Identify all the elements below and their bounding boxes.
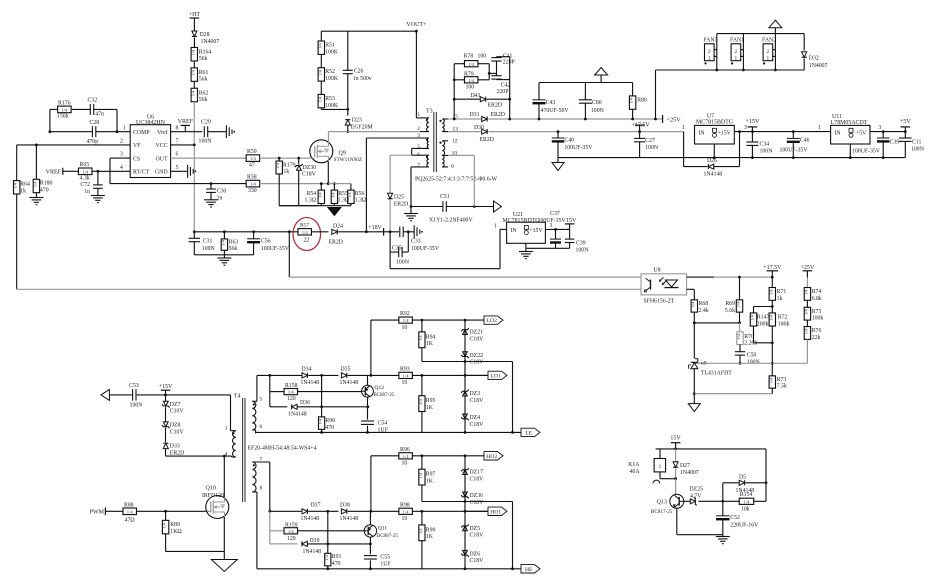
svg-text:100N: 100N	[911, 147, 925, 153]
wire snub right vert	[509, 57, 511, 119]
svg-text:R52: R52	[325, 69, 335, 75]
wire tap rowLE	[422, 361, 513, 363]
svg-text:1/4: 1/4	[468, 62, 475, 67]
svg-text:R76: R76	[812, 328, 822, 334]
svg-text:ER2D: ER2D	[480, 137, 495, 143]
svg-text:470UF-50V: 470UF-50V	[541, 108, 570, 114]
svg-text:1/4: 1/4	[162, 522, 167, 528]
svg-text:C43: C43	[546, 100, 556, 106]
wire R179 down	[278, 174, 280, 206]
svg-text:ER2D: ER2D	[329, 240, 344, 246]
junction +5V	[904, 130, 907, 133]
junction VCC	[193, 144, 196, 147]
svg-text:100N: 100N	[202, 246, 216, 252]
svg-text:1.3Ω: 1.3Ω	[355, 198, 367, 204]
svg-text:D5: D5	[739, 474, 746, 480]
wire base row	[698, 500, 739, 502]
svg-text:C33: C33	[411, 238, 421, 244]
svg-text:5: 5	[260, 396, 263, 402]
wire Q12 top	[367, 375, 369, 385]
wire R158 to base	[298, 391, 362, 393]
svg-text:2: 2	[767, 49, 770, 55]
capacitor C72	[80, 182, 102, 195]
junction R68 row	[693, 322, 696, 325]
junction snub left low	[453, 78, 456, 81]
diode D27	[673, 449, 699, 479]
wire sense gnd row	[279, 205, 351, 207]
svg-text:7: 7	[260, 457, 263, 463]
wire D41 row b	[487, 98, 510, 100]
junction HE row vert	[511, 567, 514, 570]
resistor R78	[464, 54, 487, 67]
svg-text:2.4k: 2.4k	[699, 308, 709, 314]
svg-text:1/4: 1/4	[768, 314, 773, 320]
wire D37-D38	[308, 510, 338, 512]
junction d34 row start	[268, 374, 271, 377]
svg-text:1/4: 1/4	[736, 301, 741, 307]
wire U21 gnd stub	[525, 243, 527, 251]
svg-text:470: 470	[325, 425, 334, 431]
wire R95 down	[421, 412, 423, 433]
resistor R89	[162, 520, 183, 535]
power arrow fans	[769, 20, 782, 33]
wire DZ7 stub	[165, 395, 167, 401]
wire fan riser	[655, 70, 657, 119]
wire rowA	[371, 319, 400, 321]
svg-text:R65: R65	[80, 162, 90, 168]
junction C50 bottom	[739, 362, 742, 365]
svg-text:1/4: 1/4	[317, 42, 322, 48]
svg-text:R159: R159	[285, 523, 298, 529]
wire snub tap	[489, 72, 496, 74]
svg-text:1KΩ: 1KΩ	[170, 529, 182, 535]
port VREF	[178, 119, 194, 132]
svg-text:C18V: C18V	[470, 336, 485, 342]
svg-text:DZ7: DZ7	[170, 402, 181, 408]
wire C32 right	[94, 108, 117, 110]
svg-text:5.6k: 5.6k	[725, 308, 735, 314]
wire R65 to U6	[92, 170, 130, 172]
svg-text:C27: C27	[645, 138, 655, 144]
wire U21 out	[545, 228, 569, 230]
diode D31	[470, 112, 506, 122]
junction tap LE	[464, 360, 467, 363]
svg-text:47: 47	[249, 162, 255, 168]
junction R72 link	[771, 341, 774, 344]
wire LE row b	[465, 431, 521, 433]
port HE	[521, 565, 540, 573]
ground C40 triangle	[552, 163, 564, 171]
transistor Q12 BC807-25	[362, 385, 395, 398]
svg-text:R91: R91	[332, 554, 342, 560]
svg-text:R88: R88	[124, 502, 134, 508]
resistor R65	[78, 162, 92, 181]
resistor R164	[190, 47, 211, 62]
svg-text:R72: R72	[778, 315, 788, 321]
svg-text:1/4: 1/4	[403, 454, 410, 459]
zener DZ22	[461, 352, 484, 366]
capacitor C35	[390, 232, 410, 266]
svg-text:1N4148: 1N4148	[301, 380, 320, 386]
svg-text:1k: 1k	[777, 296, 783, 302]
wire R55 stub	[333, 184, 335, 191]
wire R176 to C32	[72, 108, 90, 110]
svg-text:1/4: 1/4	[750, 314, 755, 320]
capacitor C29	[199, 119, 213, 144]
zener DZ25	[684, 487, 703, 506]
pin 5 wire GND	[171, 170, 188, 172]
transformer T4 sec 5-6	[252, 401, 257, 433]
wire C42 bottom link	[497, 79, 510, 81]
svg-text:1: 1	[494, 223, 497, 229]
svg-text:C50: C50	[747, 353, 757, 359]
wire Q11 top	[369, 511, 371, 524]
junction d37 row start	[268, 510, 271, 513]
wire relay gnd row	[677, 534, 723, 536]
svg-text:DZ6: DZ6	[470, 552, 481, 558]
svg-text:VREF: VREF	[46, 169, 62, 175]
wire C30 gnd	[210, 192, 212, 199]
junction relay top	[674, 448, 677, 451]
wire pin7 down	[410, 167, 412, 207]
capacitor C41	[491, 54, 514, 66]
svg-text:K1A: K1A	[628, 462, 640, 468]
resistor R97	[418, 469, 436, 485]
svg-text:+HT: +HT	[189, 12, 201, 18]
junction DZ7 top	[164, 394, 167, 397]
svg-text:1/4: 1/4	[318, 418, 323, 424]
wire D25 col upper	[389, 155, 391, 193]
wire DZ30 down	[298, 170, 300, 205]
svg-text:1/4: 1/4	[403, 374, 410, 379]
svg-text:1: 1	[682, 125, 685, 131]
wire comp loop left	[49, 109, 51, 131]
junction R99 top	[421, 510, 424, 513]
wire R147 link	[754, 342, 773, 344]
wire COMP row a	[50, 131, 93, 133]
wire rowB right	[412, 374, 487, 376]
resistor R180	[32, 179, 52, 193]
wire R159 link	[270, 530, 284, 532]
svg-text:X1Y1-2.2NF400V: X1Y1-2.2NF400V	[429, 218, 473, 224]
svg-text:1: 1	[767, 56, 770, 62]
svg-text:STW11N90Z: STW11N90Z	[334, 157, 363, 163]
svg-text:+15V: +15V	[718, 130, 732, 136]
wire CS down	[109, 158, 111, 184]
pin 8 wire Vref	[171, 131, 203, 133]
svg-text:1N4148: 1N4148	[340, 516, 359, 522]
svg-text:DZ3: DZ3	[470, 391, 481, 397]
svg-text:100UF-35V: 100UF-35V	[780, 148, 809, 154]
svg-text:RT/CT: RT/CT	[133, 170, 150, 176]
wire R180 to gnd	[35, 193, 37, 198]
svg-text:MC7815BDTG: MC7815BDTG	[696, 119, 734, 125]
junction rowB2 x371	[370, 510, 373, 513]
svg-text:C42: C42	[501, 83, 511, 89]
svg-text:1/4: 1/4	[190, 49, 195, 55]
svg-text:Q9: Q9	[339, 151, 346, 157]
svg-text:1/4: 1/4	[324, 554, 329, 560]
diode D41	[471, 93, 503, 109]
svg-text:180k: 180k	[778, 321, 790, 327]
wire D28 to R164	[193, 38, 195, 48]
resistor R99	[418, 525, 436, 541]
relay K1A	[628, 459, 665, 476]
svg-text:PQ2625-52:7:4:3:3:7:7:52-Φ0.6-: PQ2625-52:7:4:3:3:7:7:52-Φ0.6-W	[415, 177, 498, 183]
svg-text:1/4: 1/4	[403, 509, 410, 514]
svg-text:R64: R64	[20, 182, 30, 188]
svg-text:C18V: C18V	[302, 171, 317, 177]
svg-text:6.8k: 6.8k	[812, 296, 822, 302]
port +17.5V rail	[635, 125, 644, 132]
diode D24	[329, 224, 344, 246]
wire D38 right	[348, 510, 400, 512]
resistor R80	[629, 83, 647, 120]
diode D38	[340, 503, 359, 523]
wire +18V to D25col	[384, 231, 391, 233]
wire rowA2 left vert	[370, 456, 372, 512]
wire C55 down	[369, 560, 371, 568]
junction rowB x371	[370, 374, 373, 377]
svg-text:R98: R98	[400, 502, 410, 508]
svg-text:OUT: OUT	[155, 156, 168, 162]
capacitor C11	[899, 132, 925, 158]
svg-text:330: 330	[248, 188, 257, 194]
port triangle left	[101, 389, 109, 400]
transformer T3 secondary winding 12-10	[439, 141, 448, 156]
wire fan bottom rail	[656, 69, 805, 71]
svg-text:R96: R96	[400, 447, 410, 453]
wire rowA2 right	[412, 455, 465, 457]
svg-text:1/4: 1/4	[190, 90, 195, 96]
svg-text:EGF20M: EGF20M	[351, 125, 373, 131]
wire VOUT down to pin1	[415, 31, 417, 118]
svg-text:100N: 100N	[130, 402, 144, 408]
svg-text:D33: D33	[170, 443, 180, 449]
junction C54 bot	[366, 431, 369, 434]
svg-text:1/4: 1/4	[403, 318, 410, 323]
wire fb row	[694, 362, 772, 364]
wire D34 mid col	[321, 375, 323, 417]
svg-text:4.3k: 4.3k	[80, 176, 90, 182]
wire R99 stub	[421, 511, 423, 525]
resistor R154	[739, 492, 754, 512]
wire R159 to base	[298, 530, 365, 532]
power port +HT	[189, 12, 201, 18]
svg-text:R164: R164	[199, 50, 212, 56]
svg-text:R180: R180	[40, 180, 53, 186]
wire R94 down	[421, 348, 423, 362]
svg-text:1: 1	[735, 56, 738, 62]
wire out to C46	[752, 131, 830, 133]
junction R97 top	[421, 454, 424, 457]
wire C54 down	[367, 426, 369, 433]
svg-text:1/4: 1/4	[803, 328, 808, 334]
svg-text:47n: 47n	[95, 112, 104, 118]
svg-text:ER2D: ER2D	[488, 103, 503, 109]
svg-text:1: 1	[123, 125, 126, 131]
svg-text:FAN2: FAN2	[762, 38, 776, 44]
junction row c31	[193, 230, 196, 233]
wire pin13 to D30	[448, 131, 481, 133]
svg-text:1/4: 1/4	[418, 335, 423, 341]
svg-text:DZ30: DZ30	[303, 165, 317, 171]
wire R75-R76	[806, 320, 808, 327]
svg-text:1/4: 1/4	[61, 108, 68, 113]
svg-text:R70: R70	[744, 334, 754, 340]
wire HE row b	[465, 568, 521, 570]
wire drain bus	[329, 131, 421, 133]
wire pin15 to D31	[448, 118, 481, 120]
wire CS row	[110, 157, 130, 159]
svg-text:1/4: 1/4	[803, 308, 808, 314]
svg-text:3: 3	[879, 125, 882, 131]
svg-text:D32: D32	[809, 56, 819, 62]
svg-text:R51: R51	[325, 43, 335, 49]
resistor R159	[284, 523, 298, 542]
junction comp right	[116, 130, 119, 133]
wire R61 to R62	[193, 81, 195, 88]
wire R158 link	[270, 391, 284, 393]
svg-text:1/4: 1/4	[768, 289, 773, 295]
wire R68 top	[693, 289, 695, 300]
wire R180 stub	[35, 145, 37, 179]
wire rail175 a	[489, 131, 684, 133]
junction R54 top	[320, 182, 323, 185]
svg-text:IN: IN	[511, 228, 518, 234]
ground pin5 sideways	[188, 165, 197, 178]
svg-text:Q10: Q10	[206, 486, 216, 492]
wire fb lower bus	[17, 288, 641, 290]
wire R90 down	[321, 429, 323, 432]
resistor R63	[220, 232, 238, 255]
svg-text:1/4: 1/4	[275, 162, 280, 168]
junction R89 top	[164, 510, 167, 513]
wire D25 col lower	[389, 200, 391, 232]
red highlight ellipse	[293, 218, 321, 251]
wire U21 in	[500, 228, 507, 230]
svg-text:T3: T3	[426, 109, 433, 115]
connector FAN2	[762, 38, 776, 65]
svg-text:C52: C52	[730, 515, 740, 521]
wire tap rowHE	[422, 501, 513, 503]
svg-text:1n: 1n	[84, 189, 90, 195]
wire rowC2	[270, 543, 298, 545]
capacitor C31	[189, 232, 216, 255]
junction TL431 gnd	[693, 392, 696, 395]
transformer T4 sec 7-8	[252, 462, 269, 495]
wire Q10 source down	[223, 517, 225, 551]
transformer T3 secondary winding 10-9	[442, 155, 448, 167]
svg-text:C35: C35	[392, 246, 402, 252]
svg-text:1k: 1k	[284, 169, 290, 175]
svg-text:100: 100	[466, 84, 475, 90]
wire C51 row b	[446, 206, 494, 208]
svg-text:R93: R93	[400, 366, 410, 372]
svg-text:10k: 10k	[741, 506, 750, 512]
svg-text:SFH6156-2T: SFH6156-2T	[644, 299, 675, 305]
wire pin5-6 jumper	[411, 148, 413, 155]
svg-text:R58: R58	[247, 175, 257, 181]
regulator U11 L78M05ACDT	[831, 114, 870, 144]
svg-text:+15V: +15V	[159, 384, 173, 390]
svg-text:IN: IN	[699, 130, 706, 136]
svg-text:1N4148: 1N4148	[704, 172, 723, 178]
transformer T3 secondary winding 15-13	[439, 119, 448, 132]
wire Q11 to C55	[369, 544, 371, 554]
zener DZ5	[461, 524, 484, 538]
svg-text:R53: R53	[325, 96, 335, 102]
connector FAN3	[703, 38, 717, 65]
diode D30	[474, 125, 494, 143]
svg-text:1K: 1K	[426, 341, 434, 347]
wire U11 gnd stub	[849, 144, 851, 158]
diode D36	[288, 400, 310, 418]
wire K1A down	[659, 472, 661, 479]
wire snub left vert	[453, 64, 455, 119]
svg-text:56k: 56k	[229, 246, 238, 252]
junction D37-D38	[326, 510, 329, 513]
junction R95 top	[421, 374, 424, 377]
wire VF left down	[16, 145, 18, 181]
wire D33 down	[165, 449, 167, 456]
zener DZ36	[461, 492, 484, 506]
port HO2	[484, 452, 503, 460]
junction +15V	[751, 130, 754, 133]
junction snub mid	[488, 72, 491, 75]
svg-text:1/4: 1/4	[629, 97, 634, 103]
svg-text:D24: D24	[333, 224, 343, 230]
regulator U7 MC7815BDTG	[695, 113, 735, 144]
svg-text:10: 10	[402, 516, 408, 522]
capacitor C33	[400, 227, 440, 252]
port +15V drv	[159, 384, 173, 395]
svg-text:6: 6	[260, 424, 263, 430]
svg-text:C51: C51	[440, 194, 450, 200]
wire rowLE	[256, 431, 465, 433]
regulator U21 MC7815BDTG	[503, 212, 546, 243]
wire R88 to gate	[137, 510, 209, 512]
wire D37 left	[270, 510, 302, 512]
svg-text:C28: C28	[90, 120, 100, 126]
svg-text:D31: D31	[470, 112, 480, 118]
junction U7 gnd	[713, 156, 716, 159]
svg-text:1/4: 1/4	[220, 239, 225, 245]
wire D5 row	[723, 482, 739, 484]
svg-text:100: 100	[478, 54, 487, 60]
wire snub top	[497, 56, 510, 58]
junction Q10 drain	[223, 455, 226, 458]
svg-text:1/4: 1/4	[32, 181, 37, 187]
junction fan1	[742, 69, 745, 72]
resistor R90	[318, 417, 336, 431]
wire R76 down	[806, 339, 808, 363]
wire R53 to D23 jog	[320, 108, 322, 110]
svg-text:470p: 470p	[87, 139, 99, 145]
power arrow	[595, 68, 608, 83]
svg-text:Q13: Q13	[657, 499, 667, 505]
svg-text:C55: C55	[380, 555, 390, 561]
capacitor C50	[735, 345, 761, 366]
svg-text:DZ4: DZ4	[470, 415, 481, 421]
wire pin3 left	[366, 137, 420, 139]
svg-text:120: 120	[287, 396, 296, 402]
port +17.5V fb	[763, 265, 782, 277]
svg-text:8: 8	[176, 125, 179, 131]
junction C37	[554, 228, 557, 231]
svg-text:1/4: 1/4	[347, 192, 352, 198]
svg-text:9: 9	[451, 164, 454, 170]
